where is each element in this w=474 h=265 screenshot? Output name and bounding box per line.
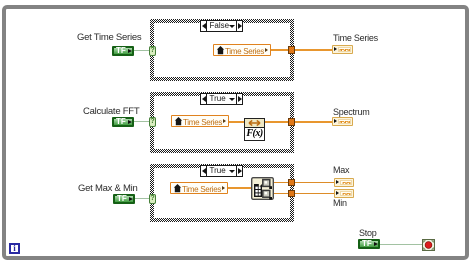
Array Max & Min icon xyxy=(251,177,274,200)
case structure 2 (True case, FFT) xyxy=(150,92,294,153)
label Calculate FFT xyxy=(83,106,139,117)
indicator terminal [DBL] Time Series xyxy=(332,45,353,54)
FFT VI icon xyxy=(244,118,265,141)
label Max xyxy=(333,165,349,175)
case selector label "False" (structure 1) xyxy=(200,20,243,32)
case 1 selector tunnel ? xyxy=(149,46,156,56)
case selector label "True" (structure 2) xyxy=(200,93,243,105)
wire min out to tunnel xyxy=(274,193,288,194)
shared variable Time Series (case 2) xyxy=(171,115,229,127)
tunnel case 3 min xyxy=(288,190,295,197)
case structure 1 (False case) xyxy=(150,19,294,81)
wire TF2 to case 2 xyxy=(134,121,149,122)
label Time Series (indicator) xyxy=(333,33,378,43)
wire TF3 to case 3 xyxy=(135,198,149,199)
shared variable Time Series (case 1) xyxy=(213,44,271,56)
case 2 selector tunnel ? xyxy=(149,117,156,127)
svg-text:[DBL]: [DBL] xyxy=(339,49,351,52)
boolean terminal TF (Calculate FFT) xyxy=(112,117,134,127)
indicator terminal DBL Max xyxy=(334,178,354,187)
label Min xyxy=(333,198,347,208)
indicator terminal [DBL] Spectrum xyxy=(332,117,353,126)
tunnel case 2 output xyxy=(288,118,295,126)
wire tunnel2 to Spectrum indicator xyxy=(295,121,332,123)
loop condition stop terminal xyxy=(422,238,435,250)
label Spectrum xyxy=(333,107,370,117)
case 3 selector tunnel ? xyxy=(149,194,156,204)
boolean terminal TF (Get Max & Min) xyxy=(113,194,135,204)
case selector label "True" (structure 3) xyxy=(200,165,243,177)
wire var3 to Array Max & Min xyxy=(228,187,251,189)
boolean terminal TF (Get Time Series) xyxy=(112,46,134,56)
wire FFT to tunnel xyxy=(265,121,288,123)
wire tunnel3 to Max indicator xyxy=(295,182,334,183)
indicator terminal DBL Min xyxy=(334,189,354,198)
wire max out to tunnel xyxy=(274,182,288,183)
svg-text:DBL: DBL xyxy=(342,193,352,196)
wire TF1 to case 1 xyxy=(134,50,149,51)
boolean terminal TF (Stop) xyxy=(358,239,380,249)
wire Stop TF to loop condition xyxy=(380,244,423,245)
case structure 3 (True case, Max & Min) xyxy=(150,164,294,222)
shared variable Time Series (case 3) xyxy=(170,182,228,194)
wire tunnel4 to Min indicator xyxy=(295,193,334,194)
wire var1 to tunnel xyxy=(271,49,288,51)
tunnel case 1 output xyxy=(288,46,295,54)
tunnel case 3 max xyxy=(288,179,295,186)
svg-text:[DBL]: [DBL] xyxy=(339,121,351,124)
label Get Max & Min xyxy=(78,183,138,194)
wire tunnel1 to Time Series indicator xyxy=(295,49,332,51)
label Get Time Series xyxy=(77,32,141,43)
label Stop xyxy=(359,228,377,238)
svg-text:DBL: DBL xyxy=(342,182,352,185)
iteration terminal i xyxy=(9,243,20,254)
wire var2 to FFT xyxy=(229,121,244,123)
